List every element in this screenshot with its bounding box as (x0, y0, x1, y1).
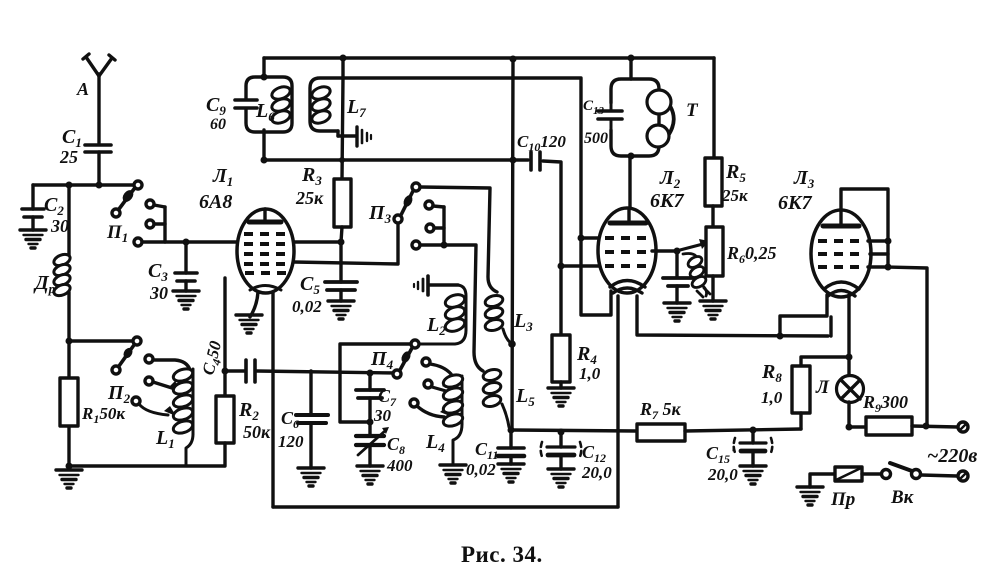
node anode junction (261, 157, 268, 164)
resistor R7 (637, 424, 685, 441)
svg-text:Вк: Вк (890, 487, 915, 508)
node T tank top (628, 55, 635, 62)
node bus top (510, 56, 517, 63)
svg-text:0,02: 0,02 (292, 297, 322, 316)
inductor L5 (482, 368, 509, 427)
node C12 junction (558, 429, 565, 436)
wire HT bus x=512 (512, 59, 513, 430)
wire bus to R3 (341, 58, 344, 78)
wire П3 bottom contact to L5 (420, 245, 483, 371)
resistor R6 (706, 227, 723, 276)
svg-text:50к: 50к (243, 422, 271, 442)
ground for R6 (700, 301, 726, 319)
svg-text:R150к: R150к (81, 404, 125, 426)
wire bus to T tank (629, 58, 632, 79)
wire fuse to switch (862, 472, 881, 475)
wire left rail lower (67, 292, 70, 467)
wire tank bottom to anode (262, 130, 265, 160)
node L3 bottom junction (508, 340, 516, 348)
resistor R9 (866, 417, 912, 435)
capacitor C5 (325, 242, 357, 301)
lamp Л (837, 357, 864, 427)
node grid tie top (885, 238, 892, 245)
node Л2 top grid junction (578, 235, 585, 242)
node R6 arrow junction (674, 248, 681, 255)
inductor Др choke (52, 252, 72, 298)
node C15 junction (750, 427, 757, 434)
wire R7 line y=432 (635, 429, 638, 432)
wire Л3 heater down (847, 295, 850, 357)
node R3/C5 junction (338, 239, 345, 246)
tube Л2 cathode arcs (610, 281, 645, 294)
tube Л1 grid rows (244, 234, 290, 273)
switch П4 blade (400, 340, 419, 370)
tube Л2 envelope (598, 208, 656, 293)
wire antenna to switch wire (97, 152, 100, 185)
svg-text:400: 400 (386, 456, 413, 475)
capacitor C8 trimmer (356, 422, 389, 466)
wire R9 to terminal (912, 426, 958, 427)
trimmer core symbol near L2 (414, 276, 458, 295)
wire П4 contact bypass to C7/C8 (340, 344, 411, 422)
wire Л2 heater left to bottom bus (616, 296, 619, 507)
svg-text:6А8: 6А8 (199, 191, 232, 213)
ground for L4 (440, 465, 466, 483)
resistor R4 (552, 266, 570, 388)
ground for C5 (328, 301, 354, 319)
tube Л2 grid rows (605, 238, 651, 266)
wire R7 to C15 (685, 429, 801, 431)
svg-text:60: 60 (210, 116, 226, 133)
headphones T earpieces (647, 90, 674, 147)
wire output line y=430 (511, 430, 637, 431)
wire R2 top junction (223, 278, 226, 371)
ground for C15 (740, 466, 766, 484)
resistor R3 (334, 179, 351, 227)
svg-text:500: 500 (584, 130, 608, 147)
wire tank to Л2 anode (628, 156, 631, 209)
tube Л1 anode bar (249, 220, 281, 225)
node cathode return (777, 333, 784, 340)
wire R6 bottom (711, 276, 714, 301)
wire R5 to R6 (711, 206, 714, 227)
transformer T tank frame (611, 79, 659, 156)
tube Л3 anode loop wire (841, 189, 888, 266)
svg-text:Рис. 34.: Рис. 34. (461, 542, 543, 567)
svg-text:1,0: 1,0 (761, 388, 783, 407)
capacitor C3 (175, 242, 197, 291)
capacitor C6 (296, 371, 328, 468)
svg-text:6К7: 6К7 (650, 190, 685, 212)
svg-text:С10120: С10120 (517, 132, 566, 154)
wire grid coupling y=371 (257, 371, 397, 373)
wire osc grid y=263 (294, 223, 398, 264)
svg-text:R7 5к: R7 5к (639, 399, 682, 422)
ground for C6 (298, 468, 324, 486)
capacitor C14 (663, 251, 693, 303)
potentiometer R6 arrow (680, 239, 709, 250)
wire R3 bottom (341, 227, 342, 242)
tube Л2 anode bar (610, 221, 646, 226)
wire Л2 cathode right to y=335 (637, 296, 828, 336)
switch П3 middle contacts (425, 201, 444, 245)
inductor L7 frame (310, 78, 343, 131)
node bottom-left junction (66, 463, 73, 470)
svg-text:1,0: 1,0 (579, 364, 601, 383)
svg-text:Пр: Пр (830, 489, 855, 510)
node Л2 grid junction (558, 263, 565, 270)
svg-text:Т: Т (686, 100, 699, 121)
switch Вк (882, 463, 958, 479)
ground for C2 (20, 230, 46, 248)
resistor R5 (705, 158, 722, 206)
wire Л3 cathode jog (780, 295, 827, 336)
svg-text:0,02: 0,02 (466, 460, 496, 479)
node tank top (261, 74, 268, 81)
terminal upper (958, 422, 968, 432)
node lamp bottom junction (846, 424, 853, 431)
ground for C12 (548, 469, 574, 487)
inductor L4 (442, 373, 464, 465)
tube Л1 envelope (237, 209, 294, 293)
switch П3 pivot (394, 215, 402, 223)
svg-text:30: 30 (373, 406, 392, 425)
inductor L4 contacts (410, 358, 454, 417)
svg-text:30: 30 (50, 216, 69, 236)
svg-text:20,0: 20,0 (707, 465, 738, 484)
inductor L7 loops (310, 84, 332, 125)
svg-text:25к: 25к (721, 186, 748, 205)
svg-text:6К7: 6К7 (778, 192, 813, 214)
node C3 junction (183, 239, 190, 246)
wire Л1 heater lead down (271, 293, 274, 507)
wire grid line y=242 (142, 240, 238, 243)
inductor cathode coil (683, 254, 710, 298)
switch П3 blade (401, 183, 420, 215)
wire bottom-left y=466 (69, 464, 224, 467)
ground sideways for L7 (338, 127, 371, 146)
inductor L3 (484, 294, 512, 344)
node grid tie bottom (885, 264, 892, 271)
node C7/C8 junction (367, 419, 374, 426)
wire cathode return jog (829, 317, 832, 336)
svg-text:30: 30 (149, 283, 168, 303)
inductor L6 loops (270, 84, 292, 125)
capacitor C4 (225, 360, 255, 382)
wire y=160 horizontal (264, 158, 528, 161)
ground for C8 (357, 466, 383, 484)
node output rail junction (923, 423, 930, 430)
tube Л3 envelope (811, 210, 871, 297)
switch П1 lower contacts (146, 200, 165, 242)
node T tank bottom (628, 153, 635, 160)
node C7 top junction (367, 370, 374, 377)
capacitor C11 (498, 430, 524, 464)
node C4/R2 junction (222, 368, 229, 375)
wire tube to R3 junction (292, 240, 341, 243)
ground for C3 (173, 291, 199, 309)
wire ground to fuse (810, 474, 835, 487)
svg-text:25к: 25к (295, 188, 324, 208)
switch П3 bottom contact (412, 241, 420, 249)
capacitor C1 (85, 145, 111, 152)
svg-text:20,0: 20,0 (581, 463, 612, 482)
coil L1 contacts (132, 355, 190, 416)
resistor R8 (792, 366, 810, 413)
wire П3 top contact to L3 (420, 187, 497, 292)
svg-text:Л: Л (815, 377, 830, 398)
tube Л1 cathode to ground (250, 292, 258, 317)
ground for R4 (548, 388, 574, 406)
inductor L2 (420, 285, 466, 344)
wire top bus right corner to R5 (712, 58, 715, 158)
wire C10 to grid corner (543, 161, 561, 266)
node bus/L7 junction (340, 55, 347, 62)
svg-text:R60,25: R60,25 (726, 243, 777, 266)
node П2 wire junction (66, 338, 73, 345)
tank L6/C9 frame (246, 77, 292, 132)
tube Л1 anode lead (263, 209, 266, 221)
ground for Л1 cathode (236, 315, 262, 333)
wire bottom bus y=507 (273, 505, 618, 508)
svg-text:R9300: R9300 (862, 392, 908, 415)
capacitor C15 electrolytic (734, 430, 773, 466)
node bus bottom C11 (508, 427, 515, 434)
wire bus corner to tank (262, 58, 265, 77)
wire left rail top (67, 185, 70, 257)
svg-text:А: А (76, 79, 89, 99)
wire lamp to R9 (849, 425, 866, 428)
wire top-left bus y=185 (33, 183, 134, 186)
resistor R2 (216, 371, 234, 466)
switch П2 blade (112, 337, 141, 374)
ground bottom-left (56, 470, 82, 488)
capacitor C10 (531, 152, 540, 170)
wire Л2 plate row to R6 (652, 249, 677, 252)
node left rail top (66, 182, 73, 189)
tube Л2 anode lead (627, 209, 630, 221)
inductor L1 (172, 367, 194, 466)
terminal lower (958, 471, 968, 481)
switch П1 bottom contact (134, 238, 142, 246)
resistor R1 (60, 378, 78, 426)
capacitor C13 (598, 103, 622, 130)
node lamp top junction (846, 354, 853, 361)
switch П1 blade (112, 181, 142, 217)
wire top grid to tube (581, 236, 604, 239)
antenna A (83, 54, 115, 143)
top bus y=58 (264, 56, 714, 59)
wire grid to tube (561, 264, 602, 267)
ground for C11 (498, 464, 524, 482)
wire lamp top to R8 (801, 357, 849, 366)
node antenna junction (96, 182, 103, 189)
capacitor C9 (235, 100, 257, 108)
wire Л3 to output rail (888, 267, 927, 426)
wire Л3 grid ties (868, 241, 888, 267)
tube Л3 cathode arcs (824, 282, 859, 296)
fuse Пр (835, 467, 862, 481)
svg-text:120: 120 (278, 432, 304, 451)
wire R8 bottom (799, 413, 802, 429)
wire L7 feedback y=78 (343, 78, 611, 315)
capacitor C2 (22, 185, 44, 230)
ground for fuse (797, 487, 823, 505)
ground for C14 (664, 303, 690, 321)
tube Л3 grid rows (818, 241, 864, 267)
switch П4 pivot (393, 370, 401, 378)
wire to П2 (69, 339, 133, 342)
svg-text:~220в: ~220в (927, 445, 977, 467)
capacitor C7 (356, 373, 384, 422)
tube Л1 cathode arc (250, 286, 281, 291)
capacitor C12 electrolytic (541, 432, 582, 469)
svg-text:25: 25 (59, 147, 78, 167)
node П3 wire junction (441, 242, 448, 249)
tube Л3 anode bar (823, 224, 859, 229)
node bus y=160 (510, 157, 517, 164)
